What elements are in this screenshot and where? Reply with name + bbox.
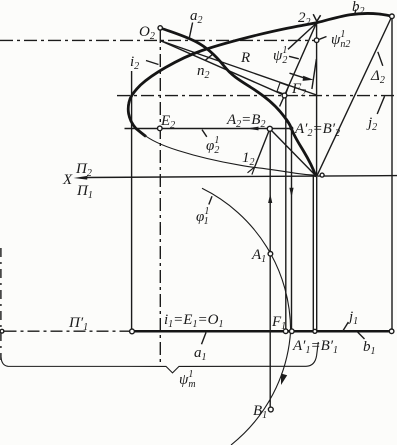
thin arc phi1-1 below axis through A1 F1 B1 [202, 188, 291, 445]
leader phi2 [202, 130, 207, 137]
svg-text:A1: A1 [251, 247, 266, 265]
leader a1 [202, 333, 207, 345]
svg-text:φ11: φ11 [196, 206, 209, 227]
circle F1 [283, 329, 288, 334]
tick arrow at point 12 [248, 167, 255, 175]
svg-text:i2: i2 [130, 54, 139, 72]
thin line from junction 22 down-left (slope -0.9) [288, 23, 317, 49]
X axis line [86, 176, 397, 178]
svg-text:ψ12: ψ12 [273, 45, 287, 66]
thin curve phi2-1 continuing from big curve to junction [143, 134, 315, 175]
svg-text:R: R [240, 50, 250, 66]
leader b2 [355, 10, 356, 15]
circle A2=B2 [267, 126, 272, 131]
leader i2 [146, 61, 159, 65]
svg-text:12: 12 [242, 150, 255, 168]
svg-text:a1: a1 [194, 345, 207, 363]
svg-text:Δ2: Δ2 [370, 68, 385, 86]
circle at right end of b2 [390, 14, 395, 19]
arrowhead of rotation arc pointing right [303, 76, 314, 81]
vertical line x=316.6 from point 22 down to X axis [316, 23, 318, 176]
svg-text:A′2=B′2: A′2=B′2 [294, 121, 340, 139]
left edge vertical dash-dot [0, 248, 2, 360]
thick curve a2 from O2 circle down to junction [162, 29, 315, 176]
vertical projection line through A (x=270.2) [269, 131, 271, 407]
circle at O2 top of a2 [158, 26, 162, 30]
svg-text:ψ1m: ψ1m [179, 369, 196, 390]
X axis arrowhead [74, 176, 88, 180]
svg-text:φ12: φ12 [206, 135, 219, 156]
dot A'2=B'2 [289, 126, 293, 130]
circle at right end of base line [389, 329, 394, 334]
circle A'1=B'1 [290, 329, 295, 334]
base line P1 thick solid part [134, 330, 389, 333]
svg-text:X: X [62, 172, 73, 188]
svg-text:n2: n2 [197, 63, 210, 81]
leader a2 [189, 23, 192, 39]
svg-text:22: 22 [298, 10, 311, 28]
svg-text:i1=E1=O1: i1=E1=O1 [164, 312, 223, 330]
svg-text:A′1=B′1: A′1=B′1 [292, 338, 338, 356]
leader psi2 [289, 56, 299, 59]
thin line from A2=B2 circle to junction (45 deg) [270, 129, 316, 176]
vertical line x=316.6 below axis [316, 177, 318, 330]
axis horizontal dash-dot through F2 (y=95.6) [117, 95, 397, 97]
thin steep line near vertical below psi-n2 circle [312, 59, 317, 89]
vertical line x=313.3 below axis [312, 177, 314, 331]
arrowhead on phi1 arc below base line [281, 374, 287, 386]
thick curve psi (big curve through 22) + b2 [128, 14, 392, 137]
svg-text:a2: a2 [190, 8, 203, 26]
leader phi1 [209, 196, 212, 204]
down arrowhead on A'B' vertical [289, 188, 293, 198]
axis i2 vertical dash-dot x=160.3 [159, 30, 161, 363]
thin line n2 from O2 to F2 [160, 41, 284, 96]
svg-text:F2: F2 [291, 81, 306, 99]
right angle square at F2 [277, 83, 289, 95]
svg-text:A2=B2: A2=B2 [226, 112, 265, 130]
circle A1 [268, 252, 273, 257]
svg-text:ψ1n2: ψ1n2 [331, 29, 350, 50]
x marker at point 22 [313, 14, 320, 21]
svg-text:П1: П1 [76, 183, 93, 201]
svg-text:П2: П2 [75, 161, 92, 179]
rotation arc arrow near F2 [290, 73, 306, 78]
circle left end of P1' trace [0, 329, 4, 333]
svg-text:F1: F1 [271, 314, 286, 332]
svg-text:j2: j2 [366, 115, 377, 133]
leader Delta2 [378, 52, 383, 66]
circle psi-n2 on y=40.4 [314, 38, 319, 43]
wire: horizontal line y=128.4 through E2, A2=B2 [125, 128, 292, 130]
Delta2 diagonal line [317, 17, 392, 176]
svg-text:П′1: П′1 [68, 315, 88, 333]
svg-text:j1: j1 [347, 309, 358, 327]
brace psi-m under bottom left [1, 342, 318, 373]
svg-text:E2: E2 [160, 113, 175, 131]
thin line R from O2 to (316.6,95) [160, 41, 316, 95]
circle at (314.9,331.3) [313, 329, 317, 333]
thin line from 22 down to F2 [280, 23, 317, 107]
circle E2 [158, 126, 163, 131]
circle B1 [268, 407, 273, 412]
leader j1 [343, 322, 349, 331]
svg-text:b1: b1 [363, 339, 376, 357]
circle center of rotation bottom (132,331.4) [130, 329, 135, 334]
arrow on A2=B2 line pointing left [247, 127, 259, 131]
svg-text:B1: B1 [253, 403, 267, 421]
vertical projection line through A'=B' (x=291.5) [291, 131, 293, 329]
thin line from 12 to A2=B2 [255, 129, 270, 167]
leader j2 [377, 96, 384, 114]
vertical thin line x=131.6 (center projection line) [131, 71, 133, 329]
svg-text:b2: b2 [352, 0, 365, 17]
vertical projection line through F (x=285.8) [285, 98, 287, 329]
leader n2 [205, 55, 212, 61]
leader b1 [357, 332, 364, 339]
leader psi-n2 [319, 37, 326, 40]
svg-text:O2: O2 [139, 24, 155, 42]
axis horizontal dash-dot through O2 (y=40.4) [0, 39, 314, 41]
vertical line x=392 right side [391, 19, 393, 329]
up arrowhead on A vertical [268, 194, 272, 204]
P1-prime trace dash-dot left part of base line [5, 330, 130, 332]
circle F2 [282, 93, 287, 98]
junction dot at (315.5,175.5) [314, 174, 317, 177]
small circle on X axis right of junction [320, 173, 324, 177]
